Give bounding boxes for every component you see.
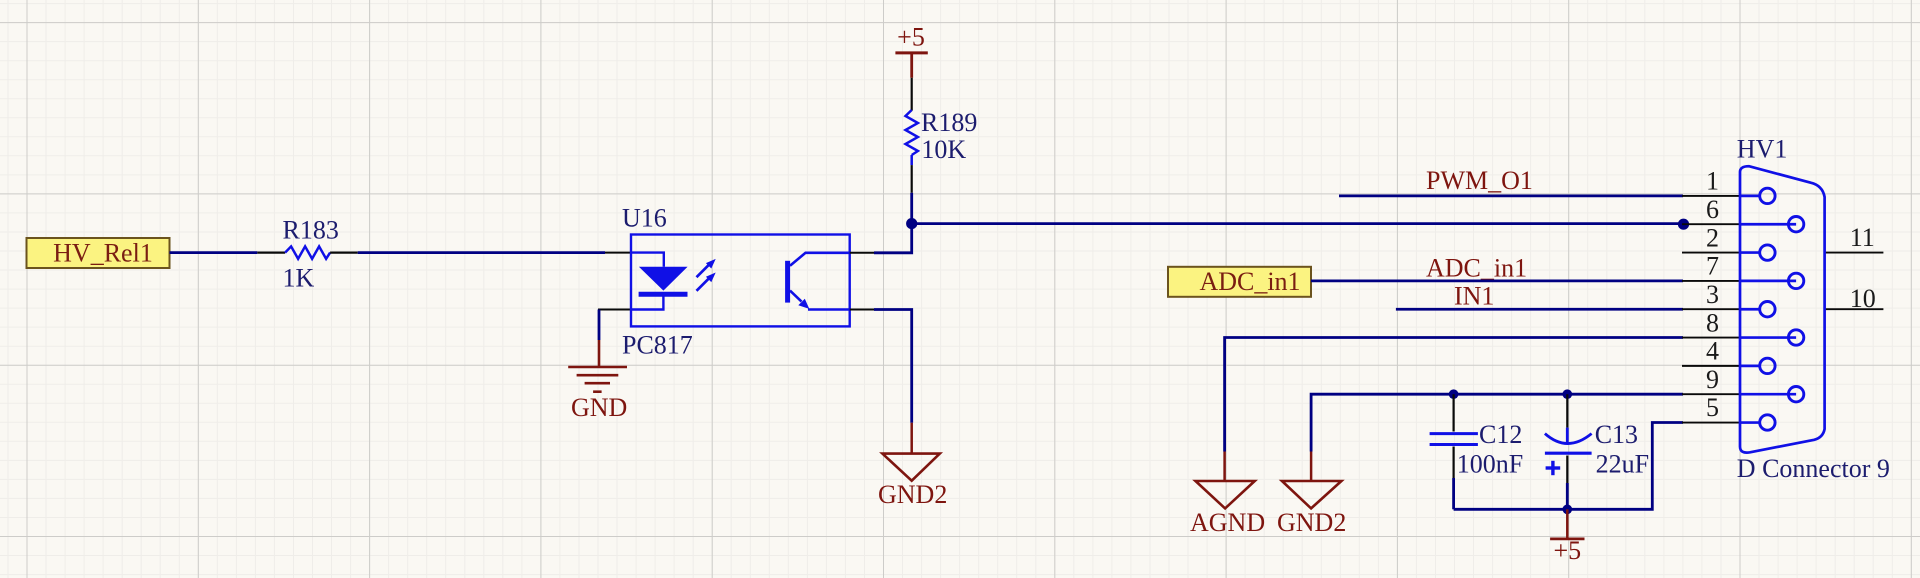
resistor R189 — [906, 78, 978, 193]
capacitor C13 — [1545, 394, 1649, 483]
wire — [910, 193, 913, 224]
optocoupler U16 — [598, 204, 850, 360]
wire — [912, 222, 1684, 225]
svg-text:4: 4 — [1706, 337, 1719, 366]
resistor R183 — [257, 216, 357, 293]
svg-text:ADC_in1: ADC_in1 — [1199, 267, 1300, 296]
svg-text:6: 6 — [1706, 195, 1719, 224]
junction — [1678, 219, 1689, 230]
wire — [170, 251, 258, 254]
wire — [1452, 478, 1455, 509]
power +5 — [895, 23, 927, 78]
svg-text:AGND: AGND — [1190, 508, 1265, 537]
junction — [1563, 389, 1573, 399]
junction — [906, 218, 917, 229]
svg-text:10: 10 — [1850, 284, 1876, 313]
svg-text:1K: 1K — [283, 263, 315, 292]
capacitor C12 — [1430, 394, 1524, 478]
junction — [1449, 389, 1459, 399]
ground GND — [568, 340, 627, 422]
pin numbers — [1706, 167, 1876, 423]
svg-text:8: 8 — [1706, 308, 1719, 337]
wire — [1339, 194, 1683, 197]
port ADC_in1 — [1168, 267, 1311, 297]
wire — [1396, 308, 1683, 311]
connector HV1 body — [1740, 166, 1825, 452]
power GND2 — [1277, 452, 1346, 538]
svg-text:5: 5 — [1706, 393, 1719, 422]
wire — [850, 310, 912, 423]
svg-text:+5: +5 — [1553, 536, 1581, 565]
wire — [1566, 483, 1569, 509]
svg-text:2: 2 — [1706, 223, 1719, 252]
svg-text:10K: 10K — [921, 135, 966, 164]
svg-text:PWM_O1: PWM_O1 — [1426, 166, 1533, 195]
svg-text:7: 7 — [1706, 252, 1719, 281]
wire — [1454, 423, 1683, 510]
svg-text:ADC_in1: ADC_in1 — [1426, 254, 1527, 283]
power GND2 — [878, 423, 947, 509]
connector HV1 pins — [1682, 196, 1883, 423]
wire — [1311, 279, 1683, 282]
svg-text:R189: R189 — [921, 108, 977, 137]
svg-text:GND2: GND2 — [878, 480, 947, 509]
svg-text:HV_Rel1: HV_Rel1 — [53, 239, 153, 268]
svg-text:1: 1 — [1706, 167, 1719, 196]
power AGND — [1190, 452, 1265, 538]
junction — [1563, 505, 1573, 515]
svg-text:C13: C13 — [1595, 420, 1638, 449]
svg-text:GND2: GND2 — [1277, 508, 1346, 537]
svg-text:3: 3 — [1706, 280, 1719, 309]
svg-text:GND: GND — [571, 393, 627, 422]
svg-text:C12: C12 — [1479, 420, 1522, 449]
svg-text:9: 9 — [1706, 365, 1719, 394]
wire — [598, 310, 601, 341]
svg-text:22uF: 22uF — [1596, 450, 1649, 479]
svg-text:U16: U16 — [622, 204, 667, 233]
svg-text:11: 11 — [1850, 223, 1875, 252]
wire — [1225, 338, 1683, 452]
wire — [1311, 394, 1683, 451]
svg-text:HV1: HV1 — [1737, 135, 1788, 164]
svg-text:+5: +5 — [897, 23, 925, 52]
port HV_Rel1 — [27, 238, 170, 268]
svg-text:IN1: IN1 — [1454, 282, 1494, 311]
svg-text:D Connector 9: D Connector 9 — [1737, 454, 1890, 483]
wire — [850, 224, 912, 253]
svg-text:PC817: PC817 — [622, 331, 693, 360]
wire — [358, 251, 605, 254]
svg-text:R183: R183 — [283, 216, 339, 245]
power +5 — [1550, 509, 1584, 565]
svg-text:100nF: 100nF — [1457, 450, 1523, 479]
